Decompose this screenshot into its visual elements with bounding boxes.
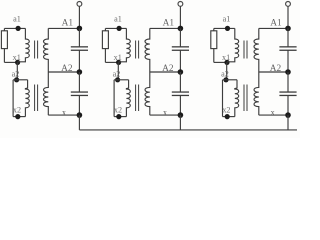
svg-text:x2: x2	[114, 106, 122, 115]
terminal circle block 3	[286, 2, 291, 7]
node A2 block 2	[178, 69, 184, 75]
wire C2 to X block 1	[78, 95, 80, 115]
winding a1-x1 (secondary coil) block 1	[18, 28, 30, 61]
capacitor C22	[172, 91, 189, 92]
wire terminal to A1 block 1	[78, 6, 80, 28]
wire a1 horizontal block 2	[105, 27, 126, 29]
winding a1-x1 (secondary coil) block 3	[227, 28, 239, 61]
wire x1 to a2 link block 2	[117, 62, 119, 79]
wire resistor to x1 block 2	[104, 49, 106, 63]
terminal circle block 1	[77, 2, 82, 7]
winding A2-X (primary coil) block 2	[145, 72, 150, 115]
wire C1 to A2 block 2	[179, 50, 181, 72]
wire A1 to C1 block 3	[287, 28, 289, 47]
wire C1 to A2 block 1	[78, 50, 80, 72]
svg-text:x1: x1	[114, 53, 122, 62]
winding A2-X (primary coil) block 1	[44, 72, 49, 115]
wire A1 to C1 block 1	[78, 28, 80, 47]
node x1 block 3	[224, 60, 229, 65]
winding A1-A2 (primary coil) block 1	[44, 28, 49, 72]
wire A2 branch block 3	[259, 71, 288, 73]
capacitor C31	[279, 46, 296, 47]
wire X branch block 3	[259, 114, 288, 116]
node A1 block 2	[178, 26, 184, 32]
wire resistor to x1 block 1	[3, 49, 5, 63]
wire C2 to X block 3	[287, 95, 289, 115]
wire x2 bottom block 2	[114, 116, 126, 118]
terminal circle block 2	[178, 2, 183, 7]
node a2 block 3	[223, 77, 228, 82]
ground bus wire	[79, 129, 297, 131]
svg-text:a2: a2	[113, 70, 121, 79]
wire resistor to x1 block 3	[213, 49, 215, 63]
svg-text:a2: a2	[12, 70, 20, 79]
wire terminal to A1 block 3	[287, 6, 289, 28]
node x1 block 1	[15, 60, 20, 65]
svg-text:A2: A2	[270, 64, 282, 74]
transformer T32 core	[243, 85, 245, 112]
wire a1 horizontal block 1	[4, 27, 25, 29]
node x2 block 1	[15, 114, 20, 119]
node X block 3	[285, 112, 291, 118]
node a2 block 2	[115, 77, 120, 82]
node X block 1	[77, 112, 83, 118]
wire C1 to A2 block 3	[287, 50, 289, 72]
wire A1 branch block 2	[150, 27, 181, 29]
node a1 block 2	[117, 26, 122, 31]
wire X branch block 1	[48, 114, 79, 116]
resistor R21 (damping box a1-x1)	[104, 28, 106, 30]
svg-text:A1: A1	[163, 18, 175, 28]
wire x1 to a2 link block 1	[16, 62, 18, 79]
winding a2-x2 (secondary coil) block 2	[126, 80, 130, 117]
wire a2 horizontal block 1	[13, 79, 28, 81]
wire A1 branch block 3	[259, 27, 288, 29]
svg-text:x2: x2	[13, 106, 21, 115]
resistor R31 (damping box a1-x1)	[213, 28, 215, 30]
wire a2 left drop block 3	[222, 80, 224, 117]
node A1 block 1	[77, 26, 83, 32]
wire a1 horizontal block 3	[214, 27, 235, 29]
node A1 block 3	[285, 26, 291, 32]
transformer T11 core	[34, 41, 36, 59]
svg-text:x1: x1	[13, 53, 21, 62]
wire A2 branch block 1	[48, 71, 79, 73]
wire X riser to bus block 2	[179, 115, 181, 130]
svg-text:x: x	[62, 108, 66, 117]
wire a2 horizontal block 3	[223, 79, 238, 81]
winding A1-A2 (primary coil) block 2	[145, 28, 150, 72]
wire A2 to C2 block 1	[78, 72, 80, 92]
svg-text:A1: A1	[62, 18, 74, 28]
node x1 block 2	[116, 60, 121, 65]
node A2 block 3	[285, 69, 291, 75]
wire terminal to A1 block 2	[179, 6, 181, 28]
svg-text:A1: A1	[270, 18, 282, 28]
wire A2 branch block 2	[150, 71, 181, 73]
wire A2 to C2 block 2	[179, 72, 181, 92]
resistor R11 (damping box a1-x1)	[3, 28, 5, 30]
wire x1 to a2 link block 3	[226, 62, 228, 79]
wire x2 bottom block 3	[223, 116, 235, 118]
wire X branch block 2	[150, 114, 181, 116]
transformer T21 core	[135, 41, 137, 59]
node a1 block 3	[225, 26, 230, 31]
node A2 block 1	[77, 69, 83, 75]
transformer T12 core	[34, 85, 36, 112]
transformer T22 core	[135, 85, 137, 112]
wire A2 to C2 block 3	[287, 72, 289, 92]
winding a2-x2 (secondary coil) block 1	[25, 80, 29, 117]
winding a2-x2 (secondary coil) block 3	[235, 80, 239, 117]
svg-text:a1: a1	[13, 15, 21, 24]
winding A2-X (primary coil) block 3	[254, 72, 259, 115]
node x2 block 3	[225, 114, 230, 119]
svg-text:x: x	[271, 108, 275, 117]
wire a2 horizontal block 2	[114, 79, 129, 81]
svg-text:x1: x1	[222, 53, 230, 62]
wire a2 left drop block 1	[12, 80, 14, 117]
wire A1 to C1 block 2	[179, 28, 181, 47]
capacitor C21	[172, 46, 189, 47]
svg-text:a2: a2	[221, 70, 229, 79]
svg-text:x: x	[163, 108, 167, 117]
capacitor C11	[71, 46, 88, 47]
node a2 block 1	[14, 77, 19, 82]
wire A1 branch block 1	[48, 27, 79, 29]
svg-text:A2: A2	[162, 64, 174, 74]
wire C2 to X block 2	[179, 95, 181, 115]
wire X riser to bus block 3	[287, 115, 289, 130]
svg-text:A2: A2	[61, 64, 73, 74]
capacitor C12	[71, 91, 88, 92]
wire X riser to bus block 1	[78, 115, 80, 130]
svg-text:a1: a1	[114, 15, 122, 24]
svg-text:a1: a1	[223, 15, 231, 24]
winding A1-A2 (primary coil) block 3	[254, 28, 259, 72]
node X block 2	[178, 112, 184, 118]
winding a1-x1 (secondary coil) block 2	[119, 28, 131, 61]
wire a2 left drop block 2	[113, 80, 115, 117]
capacitor C32	[279, 91, 296, 92]
transformer T31 core	[243, 41, 245, 59]
wire x2 bottom block 1	[13, 116, 25, 118]
node x2 block 2	[116, 114, 121, 119]
svg-text:x2: x2	[222, 106, 230, 115]
node a1 block 1	[16, 26, 21, 31]
